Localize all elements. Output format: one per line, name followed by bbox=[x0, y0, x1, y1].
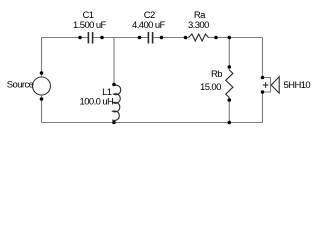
wire top rail C1 to C2 bbox=[93, 37, 148, 39]
node dot source top bbox=[40, 71, 44, 75]
svg-text:15.00: 15.00 bbox=[200, 82, 221, 93]
node dot Rb bottom junction bbox=[228, 121, 232, 125]
node dot C1 left bbox=[78, 36, 82, 40]
svg-text:5HH10: 5HH10 bbox=[284, 80, 311, 91]
svg-text:1.500 uF: 1.500 uF bbox=[73, 20, 106, 31]
speaker cone triangle bbox=[271, 77, 279, 93]
node dot L1 bottom junction bbox=[112, 121, 116, 125]
speaker terminal bracket bbox=[263, 78, 271, 93]
node dot Rb top terminal bbox=[228, 65, 232, 69]
wire L1 branch from top rail bbox=[113, 38, 115, 86]
svg-text:4.400 uF: 4.400 uF bbox=[132, 20, 165, 31]
wire right rail speaker to bottom corner bbox=[42, 92, 263, 123]
svg-text:100.0 uH: 100.0 uH bbox=[80, 96, 114, 107]
speaker plus sign bbox=[263, 82, 269, 88]
resistor Rb zigzag bbox=[226, 70, 233, 98]
source V1 circle bbox=[33, 77, 51, 95]
node dot speaker top bbox=[261, 76, 265, 80]
wire top rail C2 to Ra bbox=[153, 37, 189, 39]
node dot Ra left bbox=[184, 36, 188, 40]
svg-text:3.300: 3.300 bbox=[188, 20, 209, 31]
wire Rb branch to bottom rail bbox=[228, 98, 230, 123]
wire top rail Ra to top-right corner bbox=[209, 37, 263, 39]
node dot speaker bottom bbox=[261, 90, 265, 94]
node dot Ra right bbox=[214, 36, 218, 40]
svg-text:Source: Source bbox=[7, 80, 34, 91]
node dot C1 right bbox=[100, 36, 104, 40]
wire left rail source bottom to corner bbox=[41, 95, 43, 123]
node dot L1 top terminal bbox=[112, 83, 116, 87]
node dot source bottom bbox=[40, 97, 44, 101]
wire top rail left of C1 bbox=[42, 38, 89, 78]
node dot C2 left bbox=[138, 36, 142, 40]
wire right rail top segment to speaker bbox=[262, 38, 264, 78]
node dot Rb top junction bbox=[228, 36, 232, 40]
node dot Rb bottom terminal bbox=[228, 98, 232, 102]
inductor L1 coil bbox=[112, 85, 120, 122]
resistor Ra zigzag bbox=[189, 34, 209, 41]
capacitor C1 plates bbox=[88, 32, 92, 44]
capacitor C2 plates bbox=[148, 32, 152, 44]
svg-text:Rb: Rb bbox=[211, 69, 222, 80]
node dot C2 right bbox=[160, 36, 164, 40]
wire Rb branch from top rail bbox=[228, 38, 230, 71]
